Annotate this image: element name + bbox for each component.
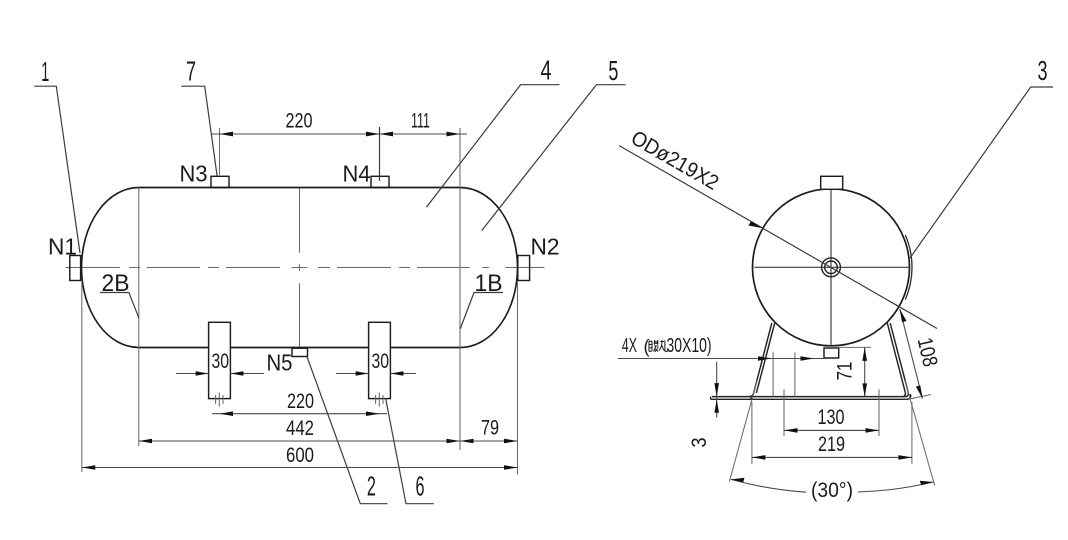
vertical center seam of tank: [297, 188, 304, 348]
right head: [460, 188, 517, 348]
svg-text:N2: N2: [531, 234, 560, 260]
svg-text:(30°): (30°): [811, 479, 853, 502]
OD leader diagonal line: [619, 146, 937, 329]
svg-text:30: 30: [212, 350, 230, 373]
head crown arc right: [905, 235, 912, 300]
dim 220 (between legs): [212, 413, 387, 415]
CJK 腰孔 drawn as paths: [649, 340, 668, 352]
vertical centerline: [830, 189, 832, 345]
nozzle N2: [518, 256, 530, 281]
left head: [82, 188, 139, 348]
slot lines (front leg waist holes): [773, 352, 795, 396]
dim 79: [460, 439, 474, 444]
tank shell: [139, 188, 460, 348]
right support leg (end view): [749, 323, 908, 397]
left support leg (end view): [712, 323, 772, 397]
svg-text:220: 220: [286, 110, 313, 133]
nozzle N4: [371, 176, 389, 187]
4X slot leader: [618, 358, 829, 360]
dim 130: [784, 389, 879, 436]
horizontal centerline of tank: [66, 267, 545, 269]
support leg left (rect): [209, 322, 231, 398]
nozzle N3: [211, 176, 229, 187]
leg centre tick marks: [216, 393, 383, 407]
nozzle N1: [70, 256, 81, 281]
svg-text:79: 79: [481, 417, 499, 440]
svg-text:N1: N1: [48, 234, 77, 260]
svg-text:N3: N3: [180, 161, 208, 187]
svg-text:30: 30: [372, 350, 390, 373]
svg-text:4: 4: [541, 55, 552, 86]
svg-text:1: 1: [41, 56, 49, 87]
head tangent seam right / extension: [459, 128, 461, 450]
svg-text:N5: N5: [267, 349, 293, 375]
svg-text:71: 71: [834, 362, 857, 381]
dim 220 (top): [219, 128, 221, 175]
top nozzle (end view): [821, 176, 843, 189]
dim 219: [752, 402, 912, 464]
support leg right (rect): [369, 322, 391, 398]
svg-text:3: 3: [688, 438, 711, 448]
svg-text:600: 600: [286, 444, 314, 467]
svg-text:30X10): 30X10): [667, 335, 712, 357]
dim 3 (plate thickness): [716, 362, 718, 418]
svg-text:3: 3: [1038, 55, 1048, 86]
horizontal centerline: [754, 266, 909, 268]
head tangent seam left: [138, 188, 140, 447]
center mark circles: [822, 258, 841, 277]
svg-text:220: 220: [287, 390, 314, 413]
svg-text:219: 219: [818, 433, 845, 456]
svg-text:N4: N4: [343, 161, 371, 187]
dim 71: [839, 346, 871, 348]
dim (30 deg) angular: [729, 381, 934, 486]
dim 600: [82, 467, 518, 469]
end view circle (shell OD): [753, 189, 910, 346]
svg-text:7: 7: [186, 56, 196, 87]
svg-text:4X: 4X: [622, 335, 637, 357]
svg-text:111: 111: [411, 110, 430, 133]
svg-text:5: 5: [608, 55, 618, 86]
svg-text:130: 130: [818, 406, 845, 429]
svg-text:6: 6: [416, 471, 425, 502]
svg-text:2: 2: [367, 471, 376, 502]
svg-text:442: 442: [286, 417, 314, 440]
dim 442: [82, 282, 518, 475]
dim 108: [908, 395, 931, 400]
nozzle N5: [292, 348, 308, 356]
bottom nozzle (end view): [824, 348, 839, 358]
